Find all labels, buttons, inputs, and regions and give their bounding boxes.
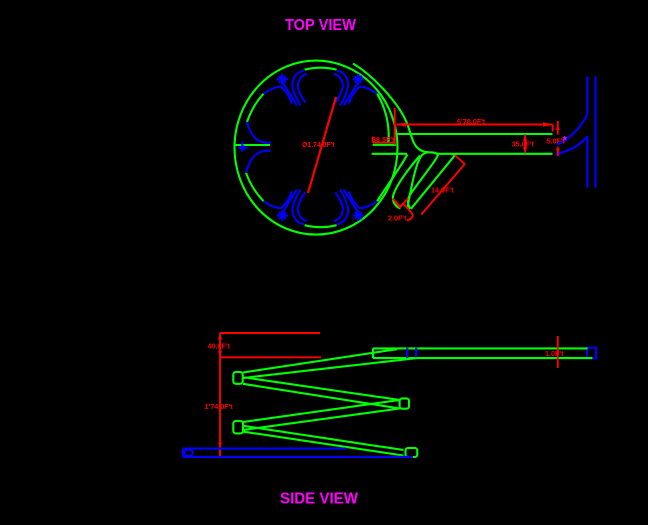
flare green centerline [235, 144, 271, 146]
inner scallop bottom arc [305, 225, 337, 227]
arm length extension left [394, 108, 396, 145]
svg-text:2.0F't: 2.0F't [388, 214, 407, 223]
star upper-left [277, 74, 288, 85]
svg-text:*: * [563, 135, 568, 147]
flare bottom blue curve [246, 151, 271, 173]
arm length right arrow [543, 122, 553, 126]
star lower-right [353, 210, 364, 221]
flare blue diamond [238, 145, 249, 150]
svg-text:40.0F't: 40.0F't [208, 342, 231, 351]
sv bar4 [243, 426, 404, 456]
brace right edge [411, 154, 455, 209]
sv base plate top [183, 448, 346, 450]
flare top blue curve [247, 122, 271, 143]
arm length extension right [552, 125, 554, 132]
inner scallop upper-left green arc [247, 94, 264, 122]
arm length dimension line [397, 124, 553, 126]
sv fold3 [233, 421, 243, 433]
sv fold4 [406, 448, 418, 457]
scroll curve A [377, 154, 407, 201]
sv dim tick on plate top edge [220, 448, 269, 450]
brace dimension extension [455, 155, 465, 164]
svg-text:TOP VIEW: TOP VIEW [285, 17, 356, 34]
arm ledge line [373, 144, 396, 146]
sv fold1 [233, 372, 242, 384]
arm bottom line left [372, 153, 407, 155]
sv bar2 [243, 378, 400, 409]
arm length left arrow [397, 122, 407, 126]
wall right vertical [594, 77, 596, 188]
ring outer circle [235, 61, 398, 235]
brace dimension line [421, 164, 465, 215]
brace width arrows [393, 199, 408, 208]
flare blue tick [241, 142, 243, 152]
junction curls upper-left [264, 70, 307, 105]
gap dimension line [373, 137, 395, 143]
junction curls upper-right [334, 70, 377, 105]
sv dim vertical [219, 333, 221, 456]
sv wall cap [587, 348, 596, 359]
sv blue ticks [407, 348, 416, 359]
end gap dimension verticals [557, 121, 559, 156]
sv base plate bottom [183, 456, 413, 458]
svg-text:SIDE VIEW: SIDE VIEW [280, 491, 358, 508]
wall left vertical upper [586, 77, 588, 115]
junction curls lower-left [264, 189, 307, 224]
sv fold2 [400, 398, 409, 408]
sv dim horizontal bottom [220, 456, 269, 458]
wall fillet bottom [555, 136, 587, 154]
sv bar1 [243, 349, 418, 378]
sv dim horizontal top [220, 332, 320, 334]
arm top line [397, 133, 553, 135]
diameter dimension line [308, 97, 336, 193]
ring bulge to arm top [353, 64, 428, 153]
star lower-left [277, 210, 288, 221]
sv dim horizontal mid [220, 356, 321, 358]
star upper-right [353, 74, 364, 85]
sv arrows [218, 333, 222, 449]
inner scallop upper-right green arc [377, 94, 389, 143]
svg-text:1.0F't: 1.0F't [545, 349, 564, 358]
inner scallop top arc [305, 68, 337, 70]
sv bar3 [243, 400, 400, 430]
sv top bar [373, 348, 592, 358]
arm width dimension [524, 135, 526, 154]
arm bottom line right [438, 153, 553, 155]
scroll curve B [393, 156, 420, 209]
svg-text:Ø1.74.0F't: Ø1.74.0F't [302, 142, 335, 149]
wall fillet top [557, 114, 587, 145]
svg-text:6'78.0F't: 6'78.0F't [457, 117, 486, 126]
svg-text:1'74.0F't: 1'74.0F't [205, 402, 234, 411]
inner scallop lower-left green arc [246, 173, 264, 201]
brace bullet loop [408, 152, 439, 208]
svg-text:35.0F't: 35.0F't [512, 140, 535, 149]
svg-text:14.9F't: 14.9F't [431, 185, 454, 194]
wall left vertical lower [586, 136, 588, 187]
sv red centerline [557, 336, 559, 368]
sv base plate eye [185, 450, 193, 456]
sv base plate left cap [182, 449, 184, 457]
junction curls lower-right [334, 189, 377, 224]
